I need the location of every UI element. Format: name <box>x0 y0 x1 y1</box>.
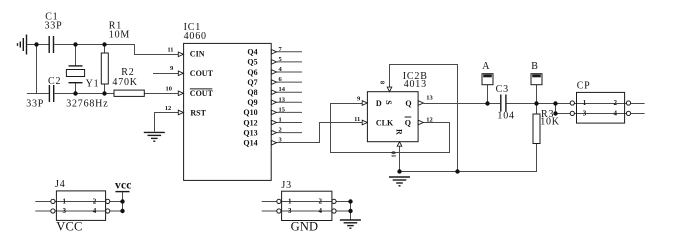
svg-text:RST: RST <box>190 108 206 117</box>
svg-text:COUT: COUT <box>190 69 214 78</box>
svg-text:Q9: Q9 <box>247 98 257 107</box>
svg-text:GND: GND <box>291 220 319 234</box>
svg-text:10: 10 <box>390 151 397 158</box>
svg-text:14: 14 <box>279 86 286 93</box>
svg-text:1: 1 <box>62 198 66 206</box>
svg-text:C3: C3 <box>496 84 509 95</box>
svg-text:3: 3 <box>62 207 66 215</box>
svg-text:J4: J4 <box>55 179 66 190</box>
svg-text:15: 15 <box>279 106 286 113</box>
svg-text:2: 2 <box>279 127 282 134</box>
svg-text:470K: 470K <box>112 77 137 88</box>
svg-text:4: 4 <box>319 207 323 215</box>
svg-text:Q12: Q12 <box>243 118 257 127</box>
svg-text:COUT: COUT <box>190 89 214 98</box>
svg-text:3: 3 <box>583 110 587 118</box>
svg-text:Q8: Q8 <box>247 88 257 97</box>
svg-text:4060: 4060 <box>184 31 207 42</box>
svg-text:2: 2 <box>614 99 618 107</box>
svg-text:S: S <box>384 100 393 105</box>
svg-text:R: R <box>394 129 403 135</box>
svg-text:4013: 4013 <box>404 79 427 90</box>
svg-text:10M: 10M <box>109 30 130 41</box>
svg-text:CP: CP <box>577 81 591 92</box>
svg-text:1: 1 <box>288 198 292 206</box>
svg-text:11: 11 <box>167 46 173 53</box>
svg-text:Q5: Q5 <box>247 58 257 67</box>
svg-text:10K: 10K <box>540 117 560 128</box>
svg-text:D: D <box>376 99 382 108</box>
svg-text:1: 1 <box>279 117 282 124</box>
svg-text:VCC: VCC <box>56 220 82 234</box>
svg-text:CLK: CLK <box>376 118 394 127</box>
svg-text:Q4: Q4 <box>247 48 257 57</box>
svg-text:104: 104 <box>497 111 514 122</box>
svg-text:vcc: vcc <box>115 179 132 191</box>
svg-text:2: 2 <box>319 198 323 206</box>
svg-text:3: 3 <box>288 207 292 215</box>
svg-text:Q: Q <box>405 118 411 127</box>
svg-text:B: B <box>531 61 538 72</box>
svg-text:Q: Q <box>405 99 411 108</box>
svg-text:Q14: Q14 <box>243 139 257 148</box>
svg-text:33P: 33P <box>26 99 44 110</box>
svg-text:12: 12 <box>165 105 172 112</box>
svg-text:Q6: Q6 <box>247 68 257 77</box>
svg-text:13: 13 <box>426 95 433 102</box>
svg-text:J3: J3 <box>281 180 292 191</box>
svg-text:4: 4 <box>614 110 618 118</box>
svg-text:33P: 33P <box>45 21 63 32</box>
svg-text:1: 1 <box>583 99 587 107</box>
svg-text:Y1: Y1 <box>86 79 100 90</box>
svg-text:32768Hz: 32768Hz <box>66 99 108 110</box>
svg-text:2: 2 <box>93 198 97 206</box>
svg-text:10: 10 <box>166 85 173 92</box>
svg-text:4: 4 <box>93 207 97 215</box>
svg-text:Q13: Q13 <box>243 128 257 137</box>
svg-text:Q10: Q10 <box>243 108 257 117</box>
svg-text:13: 13 <box>279 96 286 103</box>
svg-text:C2: C2 <box>48 76 61 87</box>
svg-text:Q7: Q7 <box>247 78 257 87</box>
svg-text:12: 12 <box>426 116 433 123</box>
svg-text:A: A <box>482 61 490 72</box>
svg-text:11: 11 <box>354 116 360 123</box>
svg-text:CIN: CIN <box>190 50 205 59</box>
